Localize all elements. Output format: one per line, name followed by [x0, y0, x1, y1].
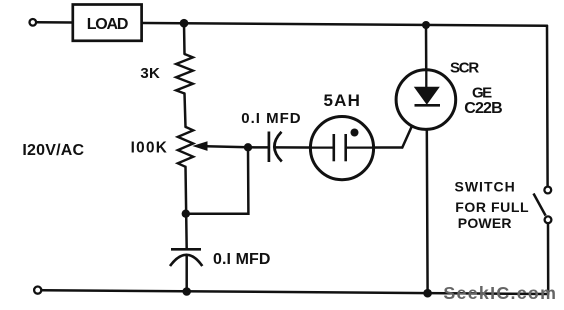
wire top rail [37, 22, 548, 26]
terminal top-left [30, 19, 37, 26]
svg-text:0.I MFD: 0.I MFD [213, 251, 271, 268]
node junction bottom SCR [423, 289, 432, 298]
wire wiper to junction [206, 146, 248, 147]
wire junction to cap left plate [248, 146, 269, 149]
wire pot bottom to cap [186, 167, 187, 250]
node junction loop left [182, 210, 190, 218]
lamp internal wires [311, 146, 334, 148]
svg-text:SWITCH: SWITCH [455, 179, 516, 195]
lamp right electrode [344, 134, 347, 161]
switch terminal top [544, 187, 551, 194]
wire SCR cathode to bottom rail [425, 105, 428, 293]
box LOAD [73, 5, 142, 41]
svg-text:C22B: C22B [464, 100, 502, 117]
svg-text:POWER: POWER [458, 215, 512, 231]
wire pot stem between resistors [185, 94, 186, 127]
switch blade [534, 194, 546, 216]
node junction top at 3K [180, 19, 189, 28]
SCR cathode bar [415, 104, 441, 107]
node junction top at SCR [422, 21, 430, 29]
SCR U1 circle [396, 70, 456, 130]
capacitor C 0.1 MFD bottom: flat plate [171, 248, 201, 251]
switch terminal bottom [545, 216, 552, 223]
node junction wiper [244, 143, 252, 151]
wire switch bottom to bottom rail [547, 223, 550, 294]
wire gate diagonal [402, 105, 421, 148]
svg-text:3K: 3K [140, 65, 160, 82]
wire lamp right electrode out to gate bend [346, 146, 403, 149]
svg-text:5AH: 5AH [324, 91, 362, 110]
svg-text:SeekIC.com: SeekIC.com [443, 283, 557, 303]
wire SCR anode from top rail [425, 25, 428, 87]
potentiometer R 100K zigzag [178, 127, 193, 167]
lamp gas dot [351, 129, 359, 137]
svg-text:SCR: SCR [450, 60, 479, 77]
SCR anode line inside [425, 70, 427, 88]
wire 3K top stem [183, 23, 186, 54]
wire cap bottom to bottom rail [185, 255, 188, 292]
resistor R 3K [176, 54, 193, 94]
wire cap to lamp left electrode [275, 146, 334, 149]
capacitor C 0.1 MFD bottom: curved plate [170, 255, 202, 266]
wire bottom rail [42, 290, 548, 294]
wire junction down and left loop [186, 147, 249, 214]
node junction bottom cap [182, 287, 191, 296]
svg-text:FOR FULL: FOR FULL [455, 199, 529, 215]
svg-text:I20V/AC: I20V/AC [22, 142, 84, 159]
SCR triangle [414, 87, 440, 105]
lamp 5AH circle [310, 117, 373, 180]
capacitor C 0.1 MFD coupling: curved plate [274, 132, 281, 162]
svg-text:LOAD: LOAD [87, 16, 128, 33]
svg-text:GE: GE [472, 85, 492, 102]
svg-text:0.I MFD: 0.I MFD [241, 110, 301, 127]
capacitor C 0.1 MFD coupling: flat plate [268, 132, 271, 163]
terminal bottom-left [34, 287, 41, 294]
wire right side down to switch [546, 26, 549, 187]
potentiometer wiper arrow [192, 141, 207, 151]
lamp left electrode [332, 134, 335, 161]
svg-text:I00K: I00K [131, 140, 169, 157]
